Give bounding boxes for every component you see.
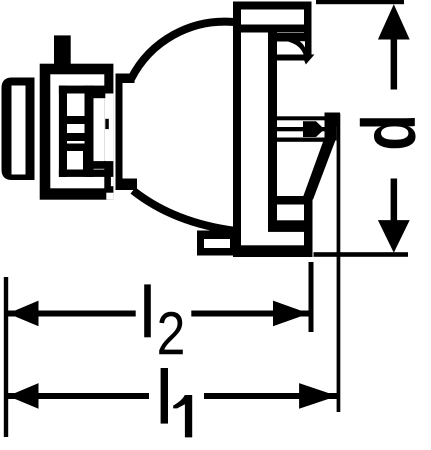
terminal mid bar 1 bbox=[67, 116, 85, 124]
support diagonal bbox=[303, 138, 336, 199]
base plate top arm bbox=[116, 74, 135, 84]
l1 arrow left bbox=[8, 383, 39, 409]
body bottom right notch bbox=[111, 177, 114, 186]
clip curl bottom band bbox=[277, 55, 306, 61]
l1 dim line left bbox=[8, 393, 149, 399]
l1 dim line right bbox=[204, 393, 337, 399]
bottom tab bbox=[197, 231, 241, 256]
terminal block left bar bbox=[59, 86, 67, 177]
base plate bar bbox=[116, 76, 123, 191]
flange bottom edge bbox=[234, 245, 313, 257]
clip curl lobe bbox=[288, 42, 312, 56]
d bottom extension line bbox=[314, 252, 409, 257]
flange right wall top bbox=[304, 2, 312, 56]
cover right of bulb (flange zone) bbox=[233, 0, 335, 262]
bulb sphere bottom arc bbox=[133, 191, 236, 232]
terminal bottom shelf bbox=[83, 151, 94, 170]
connector top tab bbox=[54, 35, 71, 64]
clip curl notch bbox=[300, 41, 306, 47]
bottom tab slot bbox=[204, 239, 230, 248]
d arrow down bbox=[378, 220, 410, 253]
d arrow up bbox=[378, 4, 410, 39]
l2 dim line right bbox=[191, 311, 309, 317]
l2 dim line left bbox=[8, 311, 136, 317]
l1 right extension line bbox=[337, 114, 341, 413]
clip curl top bbox=[277, 33, 312, 42]
terminal spine bbox=[85, 86, 94, 177]
burner bracket lug bbox=[325, 113, 341, 127]
burner bracket bar bbox=[325, 113, 337, 141]
terminal bottom arm bbox=[59, 170, 105, 177]
d dim line upper bbox=[391, 38, 398, 90]
d top extension line bbox=[316, 0, 404, 4]
l1 arrow right bbox=[299, 383, 337, 409]
l2 arrow right bbox=[273, 301, 309, 327]
flange lower band 2 bbox=[268, 220, 313, 232]
base plate bottom arm bbox=[116, 179, 138, 191]
connector body bbox=[40, 64, 114, 200]
terminal top step bbox=[94, 94, 106, 99]
clip beak bbox=[304, 55, 315, 65]
left extension line bbox=[4, 277, 8, 437]
flange right wall bottom bbox=[304, 196, 313, 257]
cap slot bbox=[12, 86, 26, 175]
l2 arrow left bbox=[8, 301, 39, 327]
burner line bottom bbox=[277, 138, 326, 142]
terminal mid bar 2 bbox=[67, 133, 85, 141]
terminal bottom step bbox=[94, 161, 107, 169]
label l2 stroke bbox=[144, 284, 151, 337]
flange lower band bbox=[277, 196, 313, 205]
body bottom right step bbox=[106, 193, 113, 200]
contact tick bbox=[105, 119, 109, 129]
burner line mid bbox=[277, 127, 326, 131]
label l1 stroke bbox=[161, 368, 168, 424]
label l1 digit bbox=[173, 395, 192, 437]
flange left wall bbox=[233, 2, 241, 258]
terminal top arm bbox=[59, 86, 105, 94]
burner line top bbox=[277, 116, 326, 120]
flange top inner band bbox=[241, 25, 312, 33]
flange top edge bbox=[233, 2, 312, 10]
label d bbox=[360, 118, 416, 148]
body right wall opening bbox=[104, 94, 113, 162]
d dim line lower bbox=[391, 179, 398, 222]
label l2 digit bbox=[159, 312, 183, 354]
body interior bbox=[50, 74, 104, 188]
bulb sphere top arc bbox=[131, 22, 234, 79]
connector cap bbox=[2, 78, 35, 181]
terminal mid bar 3 bbox=[67, 144, 85, 152]
flange inner plate bbox=[268, 33, 277, 227]
l2 right extension line bbox=[309, 262, 314, 332]
burner cap bbox=[303, 121, 324, 137]
